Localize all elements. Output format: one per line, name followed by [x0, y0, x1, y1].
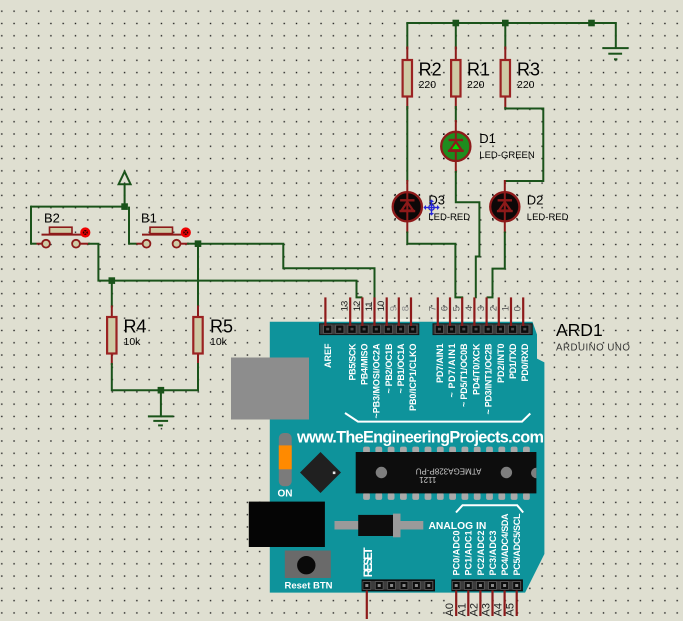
svg-text:ARDUINO UNO: ARDUINO UNO — [556, 343, 630, 354]
svg-text:~ PB1/OC1A: ~ PB1/OC1A — [396, 343, 406, 394]
svg-text:A3: A3 — [481, 603, 493, 616]
svg-text:7: 7 — [427, 306, 438, 311]
svg-text:A0: A0 — [444, 603, 456, 616]
pin stub 7 — [437, 297, 439, 326]
svg-text:6: 6 — [440, 306, 451, 311]
pin stub 1 — [510, 297, 512, 326]
wire VCC down to B1 left — [128, 207, 130, 245]
pin header digital 13-8/AREF — [320, 324, 419, 335]
pin stub 4 — [473, 297, 475, 326]
pin stub 8 — [410, 297, 412, 326]
pin stub 3 — [486, 297, 488, 326]
svg-text:ON: ON — [278, 489, 293, 500]
power symbol VCC arrow — [119, 172, 131, 207]
junction rail-R1 — [453, 20, 460, 27]
junction rail-gnd — [588, 20, 595, 27]
wire D1 cathode to pin 4 — [456, 171, 480, 298]
resistor R4 10k — [107, 316, 146, 353]
svg-text:13: 13 — [340, 301, 351, 312]
pin stub A2 — [479, 591, 481, 617]
wire D3 cathode to pin 5 — [407, 232, 463, 298]
svg-text:PB4/MISO: PB4/MISO — [360, 344, 370, 386]
pin stub A3 — [491, 591, 493, 617]
pin stub 13 — [349, 297, 351, 326]
svg-text:~ PD7/AIN1: ~ PD7/AIN1 — [447, 344, 457, 398]
pin R3 bottom — [504, 96, 506, 110]
pin header digital 7-0 — [433, 324, 532, 335]
silkscreen analog bracket — [456, 505, 523, 512]
svg-text:AREF: AREF — [323, 343, 333, 368]
junction ground node — [158, 387, 165, 394]
pin D3 anode/cathode stem — [406, 180, 408, 233]
svg-text:A4: A4 — [493, 603, 505, 616]
svg-text:PC3/ADC3: PC3/ADC3 — [488, 531, 498, 576]
resistor R2 220 — [403, 59, 442, 96]
svg-text:1121: 1121 — [419, 475, 437, 484]
pin stub 0 — [522, 297, 524, 326]
pin B1 left — [137, 243, 144, 245]
svg-text:ANALOG IN: ANALOG IN — [429, 521, 487, 532]
pin R5 top — [197, 306, 199, 318]
pin R4 top — [111, 306, 113, 318]
pin B2 left — [37, 243, 44, 245]
svg-text:10: 10 — [376, 301, 387, 312]
svg-text:PC4/ADC4/SDA: PC4/ADC4/SDA — [500, 513, 510, 576]
svg-text:A5: A5 — [505, 603, 517, 616]
svg-text:RESET: RESET — [363, 547, 375, 577]
IC U1 ATMEGA328P-PU — [356, 447, 542, 500]
svg-text:A1: A1 — [456, 603, 468, 616]
pin R4 bottom — [111, 354, 113, 366]
wire rail to R3 — [504, 22, 506, 50]
svg-text:3: 3 — [476, 306, 487, 311]
wire B1 right to node — [187, 243, 199, 245]
pin stub AREF — [324, 297, 326, 326]
svg-text:A2: A2 — [468, 603, 480, 616]
svg-text:5: 5 — [452, 306, 463, 311]
pin R2 bottom — [406, 96, 408, 110]
svg-text:12: 12 — [352, 301, 363, 312]
LED D2 LED-RED — [490, 192, 568, 223]
wire B1 left horiz — [129, 243, 137, 245]
svg-text:PD1/TXD: PD1/TXD — [508, 343, 518, 379]
svg-text:~ PD3/INT1/OC2B: ~ PD3/INT1/OC2B — [484, 343, 494, 414]
wire R4 to ground — [112, 363, 161, 390]
pin stub 9 — [398, 297, 400, 326]
svg-text:ATMEGA328P-PU: ATMEGA328P-PU — [415, 467, 481, 476]
board top highlight right — [433, 319, 532, 322]
silkscreen bracket — [345, 413, 530, 422]
pin B1 right — [180, 243, 190, 245]
svg-text:4: 4 — [464, 306, 475, 311]
pin stub 2 — [498, 297, 500, 326]
ground symbol lower left — [148, 416, 174, 425]
wire rail to top ground — [615, 22, 617, 48]
pin B2 right — [80, 243, 90, 245]
wire rail to R1 — [455, 22, 457, 50]
pin stub 12 — [361, 297, 363, 326]
crystal component (diamond) — [300, 452, 341, 493]
diode component — [335, 514, 424, 538]
pin stub A0 — [455, 591, 457, 617]
svg-text:PC5/ADC5/SCL: PC5/ADC5/SCL — [512, 513, 522, 576]
svg-text:9: 9 — [388, 306, 399, 311]
pin stub A5 — [516, 591, 518, 617]
wire node to R4 — [111, 281, 113, 308]
junction rail-R3 — [502, 20, 509, 27]
wire R5 to ground — [161, 363, 198, 390]
board top highlight left — [320, 319, 419, 322]
wire D2 cathode to pin 3 — [487, 232, 505, 298]
pin header reset — [362, 580, 434, 590]
cursor crosshair — [423, 199, 439, 215]
svg-text:PC0/ADC0: PC0/ADC0 — [452, 531, 462, 576]
svg-text:8: 8 — [401, 306, 412, 311]
wire B2 left horiz — [31, 243, 37, 245]
pin R5 bottom — [197, 354, 199, 366]
svg-text:0: 0 — [513, 306, 524, 311]
pin header analog A0-A5 — [452, 580, 522, 590]
wire B2 right to pin 12 — [88, 244, 362, 298]
svg-text:~ PD5/T1/OC0B: ~ PD5/T1/OC0B — [459, 343, 469, 407]
push button B2 — [42, 211, 90, 248]
pin stub reset — [366, 591, 368, 620]
junction VCC node — [121, 203, 128, 210]
wire R2 to D3 — [406, 106, 408, 182]
power jack — [249, 502, 325, 547]
svg-text:PB0/ICP1/CLKO: PB0/ICP1/CLKO — [408, 344, 418, 412]
pin stub A1 — [467, 591, 469, 617]
svg-text:2: 2 — [488, 306, 499, 311]
pin R1 bottom — [455, 96, 457, 110]
pin stub 11 — [373, 297, 375, 326]
svg-text:1: 1 — [501, 306, 512, 311]
LED D3 LED-RED — [393, 192, 471, 223]
pin stub 6 — [449, 297, 451, 326]
wire VCC rail to B2 — [31, 206, 125, 208]
svg-text:PB5/SCK: PB5/SCK — [347, 343, 357, 381]
wire R3 to D2 — [505, 107, 544, 181]
svg-text:PC1/ADC1: PC1/ADC1 — [464, 531, 474, 576]
svg-text:~ PB2/OC1B: ~ PB2/OC1B — [384, 343, 394, 394]
pin R1 top — [455, 47, 457, 61]
svg-text:www.TheEngineeringProjects.com: www.TheEngineeringProjects.com — [296, 429, 544, 447]
USB connector — [231, 358, 309, 420]
resistor R5 10k — [193, 316, 233, 353]
pin R2 top — [406, 47, 408, 61]
pin stub A4 — [504, 591, 506, 617]
LED D1 LED-GREEN — [441, 131, 535, 161]
pin D1 anode/cathode stem — [455, 120, 457, 173]
wire rail to R2 — [406, 22, 408, 50]
pin R3 top — [504, 47, 506, 61]
svg-text:PD0/RXD: PD0/RXD — [520, 343, 530, 382]
pin D2 stem — [504, 180, 506, 233]
ground symbol top right — [602, 48, 628, 59]
svg-text:Reset BTN: Reset BTN — [285, 581, 333, 592]
junction B1/R5 node — [195, 240, 202, 247]
svg-text:11: 11 — [364, 301, 375, 311]
resistor R1 220 — [451, 59, 490, 96]
resistor R3 220 — [501, 59, 540, 96]
reset button — [285, 551, 331, 579]
wire node to pin 10 — [198, 244, 375, 299]
push button B1 — [141, 211, 190, 248]
wire down to B2 left — [30, 206, 32, 245]
junction R4 node — [109, 277, 116, 284]
Arduino UNO board ARD1 — [270, 322, 545, 593]
pin stub 10 — [386, 297, 388, 326]
svg-text:ARD1: ARD1 — [556, 320, 603, 340]
wire node to R5 — [197, 244, 199, 308]
wire to ground symbol — [160, 390, 162, 416]
svg-text:PD4/T0/XCK: PD4/T0/XCK — [471, 343, 481, 395]
power LED component — [279, 433, 292, 486]
svg-text:~PB3/MOSI/OC2A: ~PB3/MOSI/OC2A — [372, 343, 382, 419]
svg-text:PC2/ADC2: PC2/ADC2 — [476, 531, 486, 576]
wire R1 to D1 — [455, 106, 457, 122]
wire top rail VCC net — [407, 22, 616, 24]
svg-text:PD7/AIN1: PD7/AIN1 — [435, 344, 445, 384]
pin stub 5 — [461, 297, 463, 326]
svg-text:PD2/INT0: PD2/INT0 — [496, 344, 506, 384]
